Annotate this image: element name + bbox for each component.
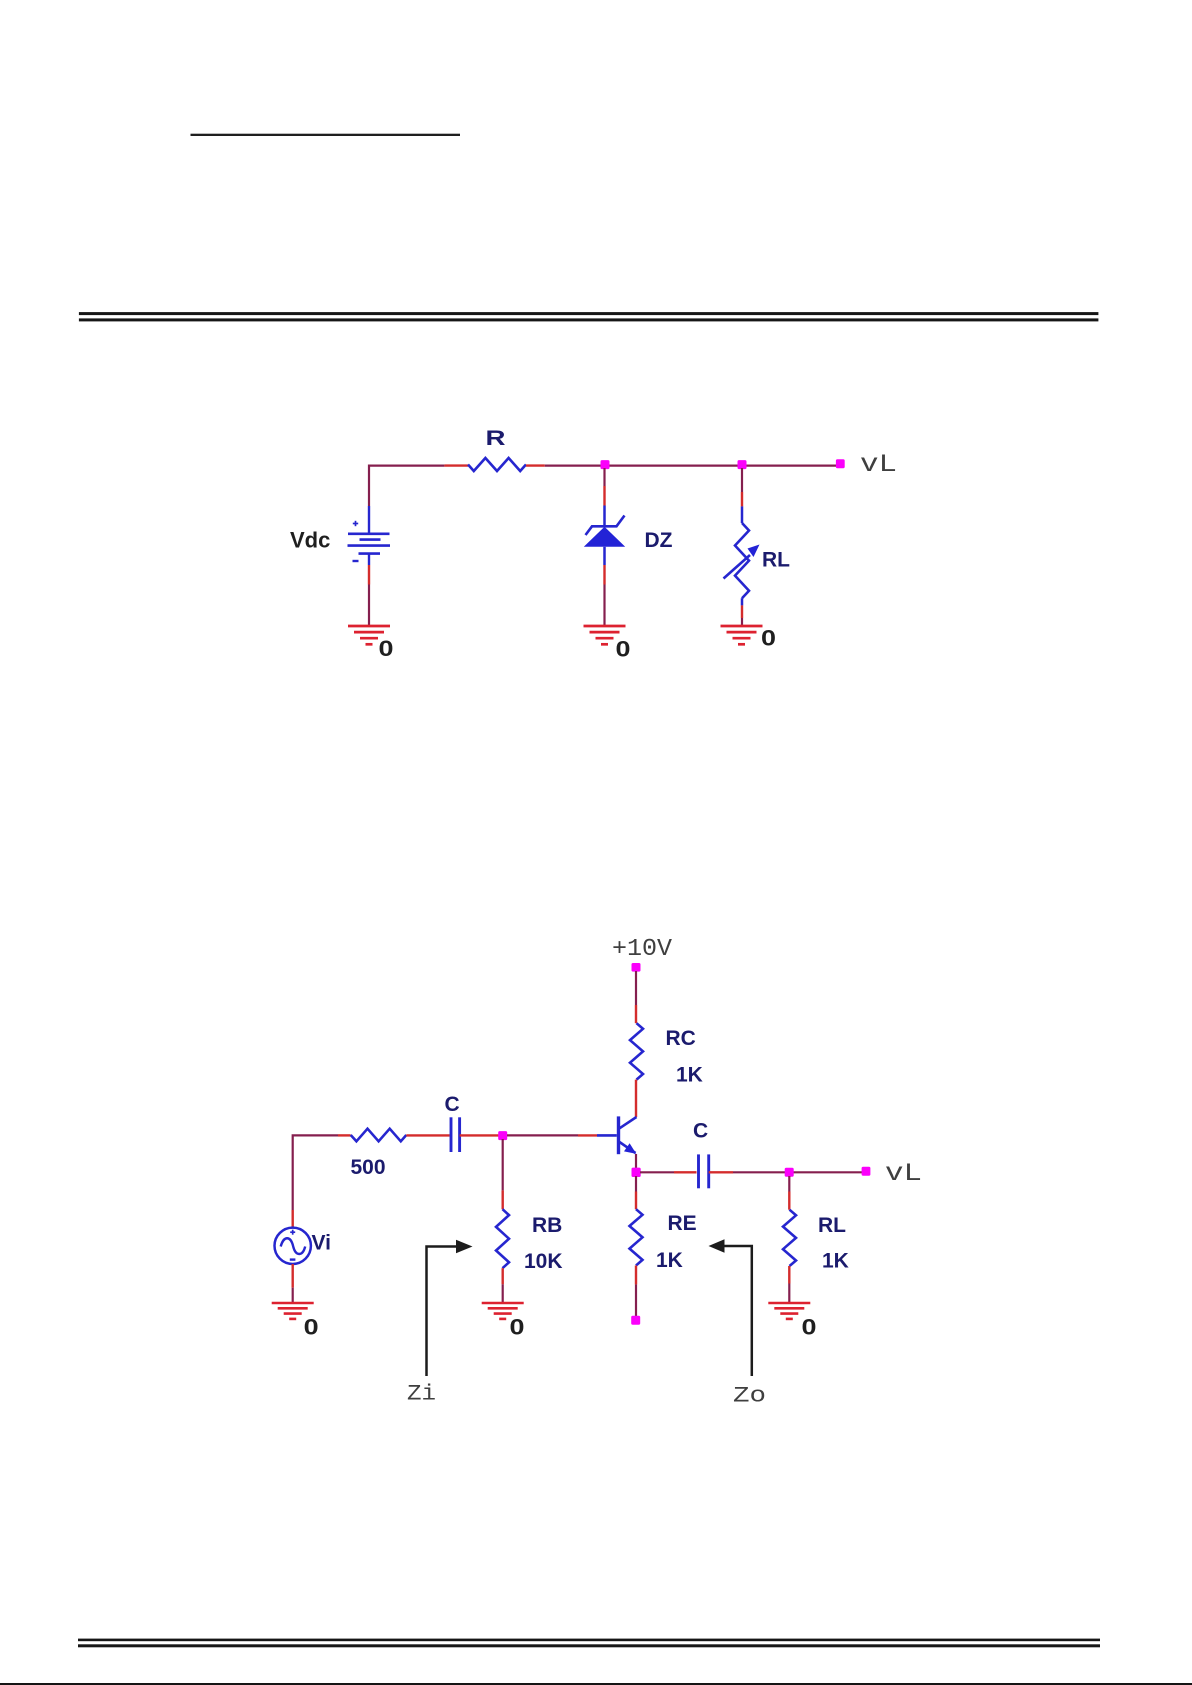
wire C2 left red lead: [674, 1171, 697, 1173]
wire RE junction to RE: [635, 1176, 637, 1192]
ground 0 (RL): [721, 626, 763, 644]
resistor RE: [630, 1209, 643, 1265]
wire RL bottom red lead: [741, 605, 743, 618]
svg-text:+10V: +10V: [612, 936, 673, 963]
svg-text:Vdc: Vdc: [290, 527, 330, 552]
battery Vdc: [348, 506, 391, 565]
svg-text:10K: 10K: [524, 1250, 563, 1273]
wire junction to base: [507, 1134, 578, 1136]
svg-text:vL: vL: [885, 1159, 922, 1188]
svg-text:RL: RL: [818, 1214, 846, 1237]
wire +10V to RC: [635, 971, 637, 1005]
svg-text:0: 0: [802, 1315, 817, 1340]
svg-text:0: 0: [379, 636, 394, 661]
wire emitter junction to C red lead: [640, 1171, 674, 1173]
wire 500 left red lead: [338, 1134, 351, 1136]
transistor Q1: [597, 1116, 637, 1154]
svg-text:1K: 1K: [656, 1249, 683, 1272]
svg-text:Vi: Vi: [312, 1232, 331, 1255]
svg-text:C: C: [693, 1120, 708, 1143]
node RL junction dot: [785, 1168, 794, 1177]
svg-text:C: C: [445, 1093, 460, 1116]
svg-text:0: 0: [761, 626, 776, 651]
ground 0 (Vdc): [348, 626, 390, 644]
node vL dot: [862, 1167, 871, 1176]
resistor R: [468, 458, 526, 471]
wire RL bottom red lead: [788, 1266, 790, 1284]
Zo arrow: [709, 1239, 752, 1376]
resistor RB: [496, 1209, 509, 1268]
ground 0 (DZ): [584, 626, 626, 644]
svg-text:500: 500: [351, 1156, 386, 1179]
svg-text:0: 0: [616, 636, 631, 661]
resistor RL (load): [783, 1210, 796, 1266]
page bottom edge line: [0, 1683, 1192, 1685]
wire DZ bottom red lead: [603, 565, 605, 585]
wire battery bottom red lead: [368, 565, 370, 585]
wire emitter to junction: [635, 1154, 637, 1168]
wire RB top red lead: [502, 1190, 504, 1209]
wire R right red lead: [526, 464, 545, 466]
Zi arrow: [427, 1240, 473, 1376]
wire Vi bottom red lead: [292, 1264, 294, 1288]
footer double rule: [78, 1639, 1100, 1642]
wire battery to ground: [368, 585, 370, 627]
wire base red lead: [578, 1134, 597, 1136]
node +10V dot: [632, 963, 641, 972]
wire DZ top red lead: [603, 486, 605, 506]
node vL dot: [836, 459, 845, 468]
wire C to base junction red lead: [460, 1134, 500, 1136]
wire source corner to 500: [293, 1135, 338, 1210]
wire C2 to vL rail: [733, 1171, 863, 1173]
wire top rail to vL: [545, 465, 837, 467]
node junction dot at RL: [738, 460, 747, 469]
wire RC top red lead: [635, 1005, 637, 1023]
svg-text:1K: 1K: [676, 1063, 703, 1086]
wire R left red lead: [444, 464, 468, 466]
svg-text:vL: vL: [860, 450, 897, 479]
resistor 500: [351, 1129, 407, 1142]
capacitor C (output): [699, 1154, 709, 1188]
wire RL to ground: [788, 1284, 790, 1304]
svg-text:RB: RB: [532, 1214, 562, 1237]
wire RL junction to RL: [788, 1176, 790, 1192]
wire RE to bottom node: [635, 1284, 637, 1316]
svg-text:0: 0: [510, 1315, 525, 1340]
svg-text:DZ: DZ: [645, 529, 673, 552]
wire base junction to RB: [502, 1139, 504, 1190]
wire 500 to C red lead: [406, 1134, 449, 1136]
wire RL top red lead: [741, 492, 743, 506]
svg-text:RC: RC: [666, 1027, 696, 1050]
svg-text:R: R: [486, 427, 506, 450]
resistor RC: [630, 1023, 643, 1079]
node junction dot at DZ: [601, 460, 610, 469]
zener diode DZ: [584, 506, 625, 566]
svg-text:Zo: Zo: [733, 1384, 766, 1409]
header double rule: [79, 312, 1099, 315]
wire RB bottom red lead: [502, 1268, 504, 1284]
wire Vi to ground: [292, 1288, 294, 1303]
svg-text:Zi: Zi: [407, 1382, 436, 1407]
source Vi: [275, 1228, 311, 1264]
title underline: [191, 134, 461, 136]
ground 0 (RB): [482, 1303, 524, 1319]
wire top-left corner to R: [369, 466, 444, 506]
svg-text:RL: RL: [762, 549, 790, 572]
variable resistor RL: [724, 506, 760, 605]
svg-text:RE: RE: [668, 1212, 697, 1235]
wire junction to DZ: [603, 468, 605, 486]
node base junction dot: [498, 1131, 507, 1140]
node RE bottom dot: [631, 1316, 640, 1325]
wire junction to RL: [741, 468, 743, 492]
capacitor C (input): [451, 1117, 460, 1152]
ground 0 (Vi): [272, 1303, 314, 1319]
ground 0 (RL load): [768, 1303, 810, 1319]
svg-text:1K: 1K: [822, 1250, 849, 1273]
wire RE top red lead: [635, 1192, 637, 1210]
node emitter junction dot: [632, 1168, 641, 1177]
wire C2 right red lead: [709, 1171, 733, 1173]
wire DZ to ground: [603, 585, 605, 627]
svg-text:0: 0: [304, 1315, 319, 1340]
wire Vi top red lead: [292, 1210, 294, 1228]
wire RL top red lead: [788, 1192, 790, 1210]
wire RL to ground: [741, 618, 743, 626]
wire RC bottom red lead: [635, 1080, 637, 1117]
wire RE bottom red lead: [635, 1266, 637, 1285]
wire RB to ground: [502, 1284, 504, 1303]
